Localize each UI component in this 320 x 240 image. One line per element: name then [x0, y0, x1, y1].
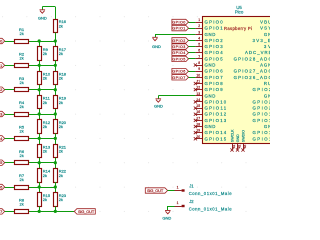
wire input row 6 [5, 162, 15, 164]
svg-text:3: 3 [198, 30, 200, 34]
svg-text:2k: 2k [43, 76, 47, 81]
ground (U5 pin 3) [155, 34, 157, 37]
wire row 3 to nodes [29, 89, 55, 91]
pin 11 GPIO8 stub [195, 83, 202, 85]
svg-text:2k: 2k [59, 24, 63, 29]
wire node B7 down [55, 187, 57, 193]
svg-text:2k: 2k [59, 197, 63, 202]
wire node A5 down [39, 138, 41, 144]
wire row 2 to nodes [29, 65, 55, 67]
no-connect pin 43 [241, 148, 244, 151]
wire R22 to node B7 [55, 182, 57, 187]
svg-text:1: 1 [198, 18, 200, 22]
svg-text:41: 41 [232, 144, 236, 148]
svg-text:ADC_VREF: ADC_VREF [245, 50, 270, 55]
svg-text:GPIO6: GPIO6 [0, 185, 2, 190]
no-connect pin 41 [230, 148, 233, 151]
wire input row 2 [5, 65, 15, 67]
svg-text:GPIO7: GPIO7 [0, 209, 2, 214]
wire input row 1 [5, 41, 15, 43]
wire R10 to node A3 [39, 85, 41, 90]
svg-text:2k: 2k [59, 76, 63, 81]
pin 18 GND stub [195, 126, 202, 128]
no-connect pin 12 [194, 88, 197, 91]
no-connect pin 15 [194, 107, 197, 110]
svg-text:GPIO21: GPIO21 [253, 99, 271, 104]
svg-text:2k: 2k [19, 31, 23, 36]
svg-text:43: 43 [243, 144, 247, 148]
svg-text:2k: 2k [19, 202, 23, 207]
wire R12 to node A5 [39, 133, 41, 138]
connector J2 [175, 206, 182, 208]
global label GPIO0 (ladder input, clipped at left edge) [0, 38, 5, 43]
global label GPIO3 (ladder input, clipped at left edge) [0, 111, 5, 116]
junction node A3 [38, 88, 41, 91]
svg-text:VBUS: VBUS [260, 20, 270, 25]
junction node B5 [54, 137, 57, 140]
junction node A2 [38, 64, 41, 67]
resistor R21 [54, 145, 58, 158]
svg-text:GPIO7: GPIO7 [172, 76, 185, 80]
wire GPIO5 to pin [189, 58, 196, 60]
global label GPIO5 (ladder input, clipped at left edge) [0, 160, 5, 165]
svg-text:GPIO5: GPIO5 [172, 57, 185, 61]
pin 7 GPIO5 stub [195, 58, 202, 60]
resistor R19 [54, 96, 58, 109]
svg-text:GPIO4: GPIO4 [205, 50, 224, 55]
svg-text:13: 13 [196, 92, 200, 96]
junction node A1 [38, 39, 41, 42]
wire node A4 down [39, 114, 41, 120]
junction node B6 [54, 161, 57, 164]
wire input row 8 [5, 211, 15, 213]
svg-text:2: 2 [198, 24, 200, 28]
wire pin 13 GND [158, 95, 195, 97]
wire node B4 down [55, 114, 57, 120]
junction node B1 [54, 39, 57, 42]
svg-text:2k: 2k [43, 173, 47, 178]
wire node B2 down [55, 65, 57, 71]
svg-text:GND: GND [205, 32, 216, 37]
no-connect pin 14 [194, 100, 197, 103]
svg-text:1: 1 [177, 185, 179, 189]
svg-text:1: 1 [177, 201, 179, 205]
global label GPIO6 (to U5 pin 9) [172, 69, 189, 74]
svg-text:2k: 2k [19, 129, 23, 134]
svg-text:GND: GND [152, 44, 161, 49]
wire R13 to node A6 [39, 158, 41, 163]
junction node B8 [54, 210, 57, 213]
pin 2 GPIO1 stub [195, 28, 202, 30]
decorative grid [2, 16, 246, 212]
svg-text:GPIO6: GPIO6 [205, 69, 224, 74]
svg-text:SIG_OUT: SIG_OUT [78, 209, 95, 214]
wire R15 to node A8 [39, 206, 41, 211]
svg-text:2k: 2k [19, 153, 23, 158]
resistor R6 [15, 161, 29, 165]
global label SIG_OUT (ladder output) [74, 209, 95, 214]
svg-text:SWCLK: SWCLK [230, 129, 234, 142]
svg-text:GND: GND [264, 93, 270, 98]
svg-text:GPIO6: GPIO6 [172, 70, 185, 74]
svg-text:GPIO3: GPIO3 [0, 112, 2, 117]
junction node A8 [38, 210, 41, 213]
junction node A6 [38, 161, 41, 164]
no-connect pin 18 [194, 125, 197, 128]
resistor R5 [15, 137, 29, 141]
svg-text:GPIO8: GPIO8 [205, 81, 224, 86]
no-connect pin 17 [194, 119, 197, 122]
svg-text:2k: 2k [59, 51, 63, 56]
svg-text:GPIO0: GPIO0 [172, 21, 185, 25]
pin 5 GPIO3 stub [195, 46, 202, 48]
resistor R13 [38, 145, 42, 158]
svg-text:18: 18 [196, 123, 200, 127]
junction node B4 [54, 112, 57, 115]
svg-text:19: 19 [196, 129, 200, 133]
svg-text:GPIO2: GPIO2 [0, 87, 2, 92]
svg-text:GND: GND [38, 15, 47, 20]
svg-text:GPIO1: GPIO1 [0, 63, 2, 68]
svg-text:GND: GND [264, 32, 270, 37]
wire R9 to node A2 [39, 60, 41, 65]
svg-text:J2: J2 [189, 199, 194, 204]
wire row 1 to nodes [29, 41, 55, 43]
resistor R12 [38, 120, 42, 134]
no-connect pin 11 [194, 82, 197, 85]
wire GPIO2 to pin [189, 40, 196, 42]
resistor R10 [38, 72, 42, 85]
wire row 5 to nodes [29, 138, 55, 140]
pin 43 SWDIO (bottom) [243, 144, 245, 150]
svg-text:GPIO3: GPIO3 [205, 44, 224, 49]
pin 1 GPIO0 stub [195, 22, 202, 24]
pin 9 GPIO6 stub [195, 71, 202, 73]
wire R16 to node B1 [55, 33, 57, 42]
pin 12 GPIO9 stub [195, 89, 202, 91]
svg-text:GPIO20: GPIO20 [253, 106, 271, 111]
ground (ladder termination) [42, 7, 44, 10]
resistor R1 [15, 40, 29, 44]
svg-text:J1: J1 [189, 183, 194, 188]
global label GPIO7 (ladder input, clipped at left edge) [0, 209, 5, 214]
global label GPIO7 (to U5 pin 10) [172, 75, 189, 80]
wire R20 to node B5 [55, 133, 57, 138]
pin 4 GPIO2 stub [195, 40, 202, 42]
svg-text:2k: 2k [43, 124, 47, 129]
svg-text:GPIO16: GPIO16 [253, 136, 271, 141]
wire input row 7 [5, 187, 15, 189]
pin 6 GPIO4 stub [195, 52, 202, 54]
wire row 7 to nodes [29, 187, 55, 189]
svg-text:RUN: RUN [264, 81, 270, 86]
svg-text:GND: GND [236, 134, 240, 142]
resistor R18 [54, 72, 58, 85]
wire row 8 to nodes [29, 211, 55, 213]
wire GPIO7 to pin [189, 77, 196, 79]
svg-text:16: 16 [196, 110, 200, 114]
connector J1 [175, 190, 182, 192]
wire GND to R16 [42, 6, 55, 8]
svg-text:11: 11 [197, 80, 201, 84]
wire node A1 down [39, 41, 41, 47]
wire output row 8 [55, 211, 74, 213]
global label GPIO0 (to U5 pin 1) [172, 19, 189, 24]
svg-text:GPIO0: GPIO0 [205, 20, 224, 25]
wire pin 3 GND [155, 34, 195, 36]
svg-text:GND: GND [205, 63, 216, 68]
svg-text:VSYS: VSYS [260, 26, 270, 31]
resistor R2 [15, 64, 29, 68]
wire input row 5 [5, 138, 15, 140]
global label GPIO6 (ladder input, clipped at left edge) [0, 184, 5, 189]
no-connect pin 19 [194, 131, 197, 134]
pin 13 GND stub [195, 95, 202, 97]
svg-text:20: 20 [196, 135, 200, 139]
no-connect pin 16 [194, 113, 197, 116]
svg-text:GPIO1: GPIO1 [205, 26, 224, 31]
svg-text:15: 15 [196, 104, 200, 108]
pin 15 GPIO11 stub [195, 108, 202, 110]
junction node A4 [38, 112, 41, 115]
wire GPIO6 to pin [189, 71, 196, 73]
no-connect pin 20 [194, 137, 197, 140]
global label GPIO3 (to U5 pin 5) [172, 44, 189, 49]
resistor R16 [54, 20, 58, 33]
pin 10 GPIO7 stub [195, 77, 202, 79]
global label GPIO4 (to U5 pin 6) [172, 50, 189, 55]
svg-text:GPIO22: GPIO22 [253, 87, 271, 92]
svg-text:Conn_01x01_Male: Conn_01x01_Male [189, 207, 233, 212]
svg-text:SIG_OUT: SIG_OUT [147, 188, 164, 193]
svg-text:GPIO2: GPIO2 [172, 39, 185, 43]
resistor R7 [15, 186, 29, 190]
wire GPIO1 to pin [189, 28, 196, 30]
svg-text:2k: 2k [43, 149, 47, 154]
resistor R3 [15, 88, 29, 92]
global label GPIO1 (to U5 pin 2) [172, 25, 189, 30]
global label GPIO2 (ladder input, clipped at left edge) [0, 87, 5, 92]
svg-text:2k: 2k [19, 104, 23, 109]
svg-text:2k: 2k [19, 80, 23, 85]
wire GPIO4 to pin [189, 52, 196, 54]
resistor R14 [38, 169, 42, 183]
svg-text:7: 7 [198, 55, 200, 59]
svg-text:GPIO19: GPIO19 [253, 112, 271, 117]
svg-text:2k: 2k [59, 124, 63, 129]
wire node B3 down [55, 90, 57, 96]
svg-text:GPIO9: GPIO9 [205, 87, 224, 92]
svg-text:GPIO3: GPIO3 [172, 45, 185, 49]
svg-text:Raspberry Pi: Raspberry Pi [224, 26, 252, 31]
resistor R20 [54, 120, 58, 134]
junction node B2 [54, 64, 57, 67]
ground (J2) [167, 207, 169, 210]
svg-text:2k: 2k [43, 51, 47, 56]
svg-text:42: 42 [238, 144, 242, 148]
svg-text:SWDIO: SWDIO [241, 130, 245, 142]
svg-text:GPIO7: GPIO7 [205, 75, 224, 80]
svg-text:GPIO17: GPIO17 [253, 130, 271, 135]
resistor R17 [54, 47, 58, 61]
svg-text:2k: 2k [59, 100, 63, 105]
wire R19 to node B4 [55, 109, 57, 114]
wire R21 to node B6 [55, 158, 57, 163]
svg-text:AGND: AGND [260, 63, 270, 68]
wire GPIO3 to pin [189, 46, 196, 48]
wire SIG_OUT to J1 [168, 190, 175, 192]
no-connect pin 42 [236, 148, 239, 151]
pin 17 GPIO13 stub [195, 120, 202, 122]
global label SIG_OUT (to J1) [145, 188, 167, 193]
wire J2 to GND [168, 206, 175, 208]
global label GPIO2 (to U5 pin 4) [172, 38, 189, 43]
svg-text:Pico: Pico [235, 10, 244, 15]
ground (U5 pin 13) [158, 96, 160, 99]
svg-text:GND: GND [264, 124, 270, 129]
global label GPIO1 (ladder input, clipped at left edge) [0, 63, 5, 68]
svg-text:GND: GND [205, 124, 216, 129]
pin 20 GPIO15 stub [195, 138, 202, 140]
wire node B5 down [55, 138, 57, 144]
wire node A2 down [39, 65, 41, 71]
junction node B7 [54, 185, 57, 188]
svg-text:2k: 2k [19, 56, 23, 61]
wire R11 to node A4 [39, 109, 41, 114]
pin 42 GND (bottom) [237, 144, 239, 150]
svg-text:14: 14 [196, 98, 200, 102]
resistor R4 [15, 113, 29, 117]
wire GPIO0 to pin [189, 22, 196, 24]
svg-text:2k: 2k [59, 173, 63, 178]
wire R14 to node A7 [39, 182, 41, 187]
svg-text:2k: 2k [43, 100, 47, 105]
no-connect pin 8 [194, 63, 197, 66]
svg-text:2k: 2k [59, 149, 63, 154]
junction node A7 [38, 185, 41, 188]
svg-text:5: 5 [198, 43, 200, 47]
junction node A5 [38, 137, 41, 140]
wire node A6 down [39, 163, 41, 169]
svg-text:12: 12 [196, 86, 200, 90]
resistor R11 [38, 96, 42, 109]
wire R23 to node B8 [55, 206, 57, 211]
resistor R15 [38, 193, 42, 207]
svg-text:GPIO1: GPIO1 [172, 27, 185, 31]
wire input row 4 [5, 114, 15, 116]
wire node B6 down [55, 163, 57, 169]
svg-text:GPIO5: GPIO5 [0, 160, 2, 165]
resistor R8 [15, 210, 29, 214]
svg-text:10: 10 [196, 73, 200, 77]
svg-text:GPIO2: GPIO2 [205, 38, 224, 43]
wire R18 to node B3 [55, 85, 57, 90]
svg-text:GPIO4: GPIO4 [172, 51, 185, 55]
wire node A7 down [39, 187, 41, 193]
wire row 4 to nodes [29, 114, 55, 116]
global label GPIO5 (to U5 pin 7) [172, 56, 189, 61]
junction node B3 [54, 88, 57, 91]
resistor R9 [38, 47, 42, 61]
svg-text:17: 17 [196, 116, 200, 120]
svg-text:GND: GND [162, 216, 171, 221]
IC U5 Raspberry Pi Pico [203, 17, 277, 144]
wire node A3 down [39, 90, 41, 96]
svg-text:8: 8 [198, 61, 200, 65]
pin 3 GND stub [195, 34, 202, 36]
pin 14 GPIO10 stub [195, 101, 202, 103]
wire node B1 down [55, 41, 57, 47]
pin 16 GPIO12 stub [195, 114, 202, 116]
svg-text:GPIO5: GPIO5 [205, 56, 224, 61]
global label GPIO4 (ladder input, clipped at left edge) [0, 136, 5, 141]
svg-text:GND: GND [154, 104, 163, 109]
svg-text:2k: 2k [19, 177, 23, 182]
wire R17 to node B2 [55, 60, 57, 65]
svg-text:4: 4 [198, 36, 200, 40]
pin 41 SWCLK (bottom) [232, 144, 234, 150]
resistor R23 [54, 193, 58, 207]
wire row 6 to nodes [29, 162, 55, 164]
svg-text:GND: GND [205, 93, 216, 98]
svg-text:2k: 2k [43, 197, 47, 202]
svg-text:9: 9 [198, 67, 200, 71]
pin 19 GPIO14 stub [195, 132, 202, 134]
pin 8 GND stub [195, 65, 202, 67]
svg-text:6: 6 [198, 49, 200, 53]
resistor R22 [54, 169, 58, 183]
svg-text:GPIO18: GPIO18 [253, 118, 271, 123]
wire input row 3 [5, 89, 15, 91]
svg-text:Conn_01x01_Male: Conn_01x01_Male [189, 191, 233, 196]
